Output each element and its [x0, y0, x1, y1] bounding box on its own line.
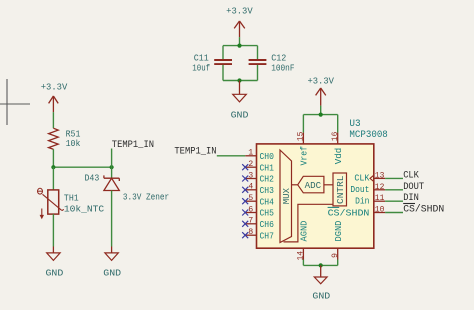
wire DIN [385, 200, 403, 202]
junction node cap top [237, 44, 241, 48]
wire junction to zener (horizontal) [53, 166, 111, 168]
svg-text:MUX: MUX [281, 188, 292, 205]
svg-text:100nF: 100nF [271, 63, 294, 74]
svg-text:10k: 10k [66, 138, 81, 149]
svg-text:+3.3V: +3.3V [226, 6, 253, 17]
junction node zener top [110, 165, 114, 169]
wire cap bottom rail [223, 80, 258, 82]
U3 internal line MUX-ADC [292, 184, 298, 186]
svg-text:CH5: CH5 [260, 208, 274, 219]
ground GND (under capacitors) [231, 81, 249, 121]
wire to pin 15 [302, 115, 304, 133]
svg-text:6: 6 [248, 204, 253, 214]
svg-text:5: 5 [248, 193, 253, 203]
svg-text:2: 2 [248, 159, 253, 169]
no-connect X pin 7 [242, 221, 248, 227]
wire pin 9 down [337, 260, 339, 266]
U3 pin 7 CH6 [245, 216, 274, 230]
svg-text:+3.3V: +3.3V [307, 76, 334, 87]
svg-text:CS/SHDN: CS/SHDN [403, 204, 444, 216]
wire CLK [385, 177, 403, 179]
svg-text:13: 13 [375, 170, 385, 180]
ground GND (under U3) [312, 265, 330, 301]
svg-text:7: 7 [248, 216, 253, 226]
U3 pin 4 CH3 [245, 182, 274, 196]
svg-text:14: 14 [296, 251, 306, 261]
svg-text:10uf: 10uf [192, 63, 210, 74]
ground GND (under TH1) [46, 247, 64, 279]
U3 pin 1 CH0 [245, 148, 274, 162]
svg-text:4: 4 [248, 182, 253, 192]
svg-text:GND: GND [46, 267, 64, 278]
resistor R51 [49, 128, 81, 149]
junction node left [51, 165, 55, 169]
no-connect X pin 6 [242, 210, 248, 216]
svg-text:15: 15 [296, 132, 306, 142]
svg-text:DGND: DGND [333, 220, 344, 241]
wire cap top rail [223, 45, 258, 47]
U3 pin 11 Din [355, 193, 385, 206]
U3 internal MUX trapezoid [280, 150, 292, 243]
U3 pin 2 CH1 [245, 159, 274, 173]
svg-text:TH1: TH1 [64, 192, 79, 203]
U3 pin 3 CH2 [245, 170, 274, 184]
svg-text:CH2: CH2 [260, 174, 274, 185]
svg-text:AGND: AGND [299, 220, 310, 241]
svg-text:DIN: DIN [403, 193, 419, 204]
U3 pin 6 CH5 [245, 204, 274, 218]
svg-text:GND: GND [231, 110, 249, 121]
svg-text:CH0: CH0 [260, 151, 274, 162]
U3 internal line ADC-CNTRL [324, 184, 333, 186]
U3 pin 9 DGND [330, 220, 344, 259]
label CS/SHDN [403, 204, 444, 216]
no-connect X pin 8 [242, 232, 248, 238]
junction node U3 top [319, 113, 323, 117]
no-connect X pin 4 [242, 187, 248, 193]
svg-text:8: 8 [248, 227, 253, 237]
wire DOUT [385, 189, 403, 191]
svg-text:MCP3008: MCP3008 [349, 130, 387, 141]
wire pin 14 down [302, 260, 304, 266]
svg-text:TEMP1_IN: TEMP1_IN [112, 140, 154, 151]
U3 pin 12 Dout [350, 182, 385, 195]
U3 pin 13 CLK [354, 170, 385, 183]
svg-text:CH3: CH3 [260, 185, 274, 196]
ground GND (under D43) [103, 247, 121, 279]
wire U3 bottom rail [303, 264, 337, 266]
wire R51 to junction [52, 149, 54, 167]
svg-text:1: 1 [248, 148, 253, 158]
crosshair origin marker [0, 79, 30, 125]
svg-text:CS/SHDN: CS/SHDN [328, 208, 370, 219]
junction node cap bottom [237, 78, 241, 82]
svg-text:TEMP1_IN: TEMP1_IN [174, 147, 216, 158]
U3 internal line CNTRL-MUX [284, 204, 334, 242]
wire +3.3V to U3 top rail [320, 106, 322, 115]
wire U3 top rail [303, 114, 337, 116]
svg-text:11: 11 [375, 193, 385, 203]
wire TEMP1_IN label to zener node [111, 149, 113, 168]
svg-text:Vdd: Vdd [333, 148, 344, 165]
no-connect X pin 3 [242, 176, 248, 182]
wire TEMP1_IN to CH0 [217, 155, 245, 157]
svg-text:3: 3 [248, 170, 253, 180]
U3 pin 10 CS/SHDN [328, 205, 386, 219]
zener diode D43 [85, 167, 170, 202]
svg-text:3.3V Zener: 3.3V Zener [123, 192, 169, 203]
wire C12 bottom [257, 65, 259, 81]
capacitor C11 [192, 53, 232, 74]
wire to C11 top [222, 46, 224, 60]
wire C11 bottom [222, 65, 224, 81]
svg-text:GND: GND [312, 291, 330, 302]
U3 pin 16 Vdd [330, 132, 344, 165]
svg-text:U3: U3 [349, 119, 360, 130]
U3 pin 8 CH7 [245, 227, 274, 241]
svg-text:CLK: CLK [354, 173, 369, 184]
svg-text:10k_NTC: 10k_NTC [64, 204, 105, 215]
svg-text:DOUT: DOUT [403, 182, 424, 193]
svg-text:9: 9 [330, 253, 340, 258]
svg-text:12: 12 [375, 182, 385, 192]
svg-text:ADC: ADC [305, 180, 322, 191]
svg-text:16: 16 [330, 132, 340, 142]
svg-text:GND: GND [103, 267, 121, 278]
svg-text:CH6: CH6 [260, 219, 274, 230]
U3 internal CNTRL box [333, 173, 347, 206]
svg-text:CH1: CH1 [260, 162, 275, 173]
svg-text:Dout: Dout [350, 184, 369, 195]
op-amp U3 MCP3008 body [257, 119, 388, 248]
wire +3.3V to R51 [52, 112, 54, 128]
wire to pin 16 [337, 115, 339, 133]
svg-text:CLK: CLK [403, 170, 419, 181]
power +3.3V (capacitors) [226, 6, 253, 37]
U3 pin 14 AGND [296, 220, 310, 260]
wire D43 to GND [111, 191, 113, 247]
power +3.3V (above U3) [307, 76, 334, 106]
wire TH1 to GND [52, 214, 54, 246]
wire CS/SHDN [385, 212, 403, 214]
U3 pin 15 Vref [296, 132, 310, 166]
svg-text:D43: D43 [85, 172, 100, 183]
power +3.3V (left) [41, 82, 68, 113]
U3 internal ADC pentagon [298, 176, 324, 193]
wire +3.3V down to cap rail [239, 37, 241, 46]
svg-text:Vref: Vref [299, 146, 310, 166]
svg-text:+3.3V: +3.3V [41, 82, 68, 93]
capacitor C12 [249, 53, 295, 74]
no-connect X pin 2 [242, 164, 248, 170]
no-connect X pin 5 [242, 198, 248, 204]
svg-text:Din: Din [355, 196, 369, 207]
svg-text:CH7: CH7 [260, 230, 274, 241]
junction node U3 bottom [319, 263, 323, 267]
thermistor TH1 [38, 188, 105, 219]
U3 pin 5 CH4 [245, 193, 274, 207]
svg-text:CNTRL: CNTRL [335, 176, 346, 205]
svg-text:10: 10 [375, 205, 385, 215]
wire to C12 top [257, 46, 259, 60]
wire junction to TH1 [52, 167, 54, 190]
svg-text:CH4: CH4 [260, 196, 275, 207]
